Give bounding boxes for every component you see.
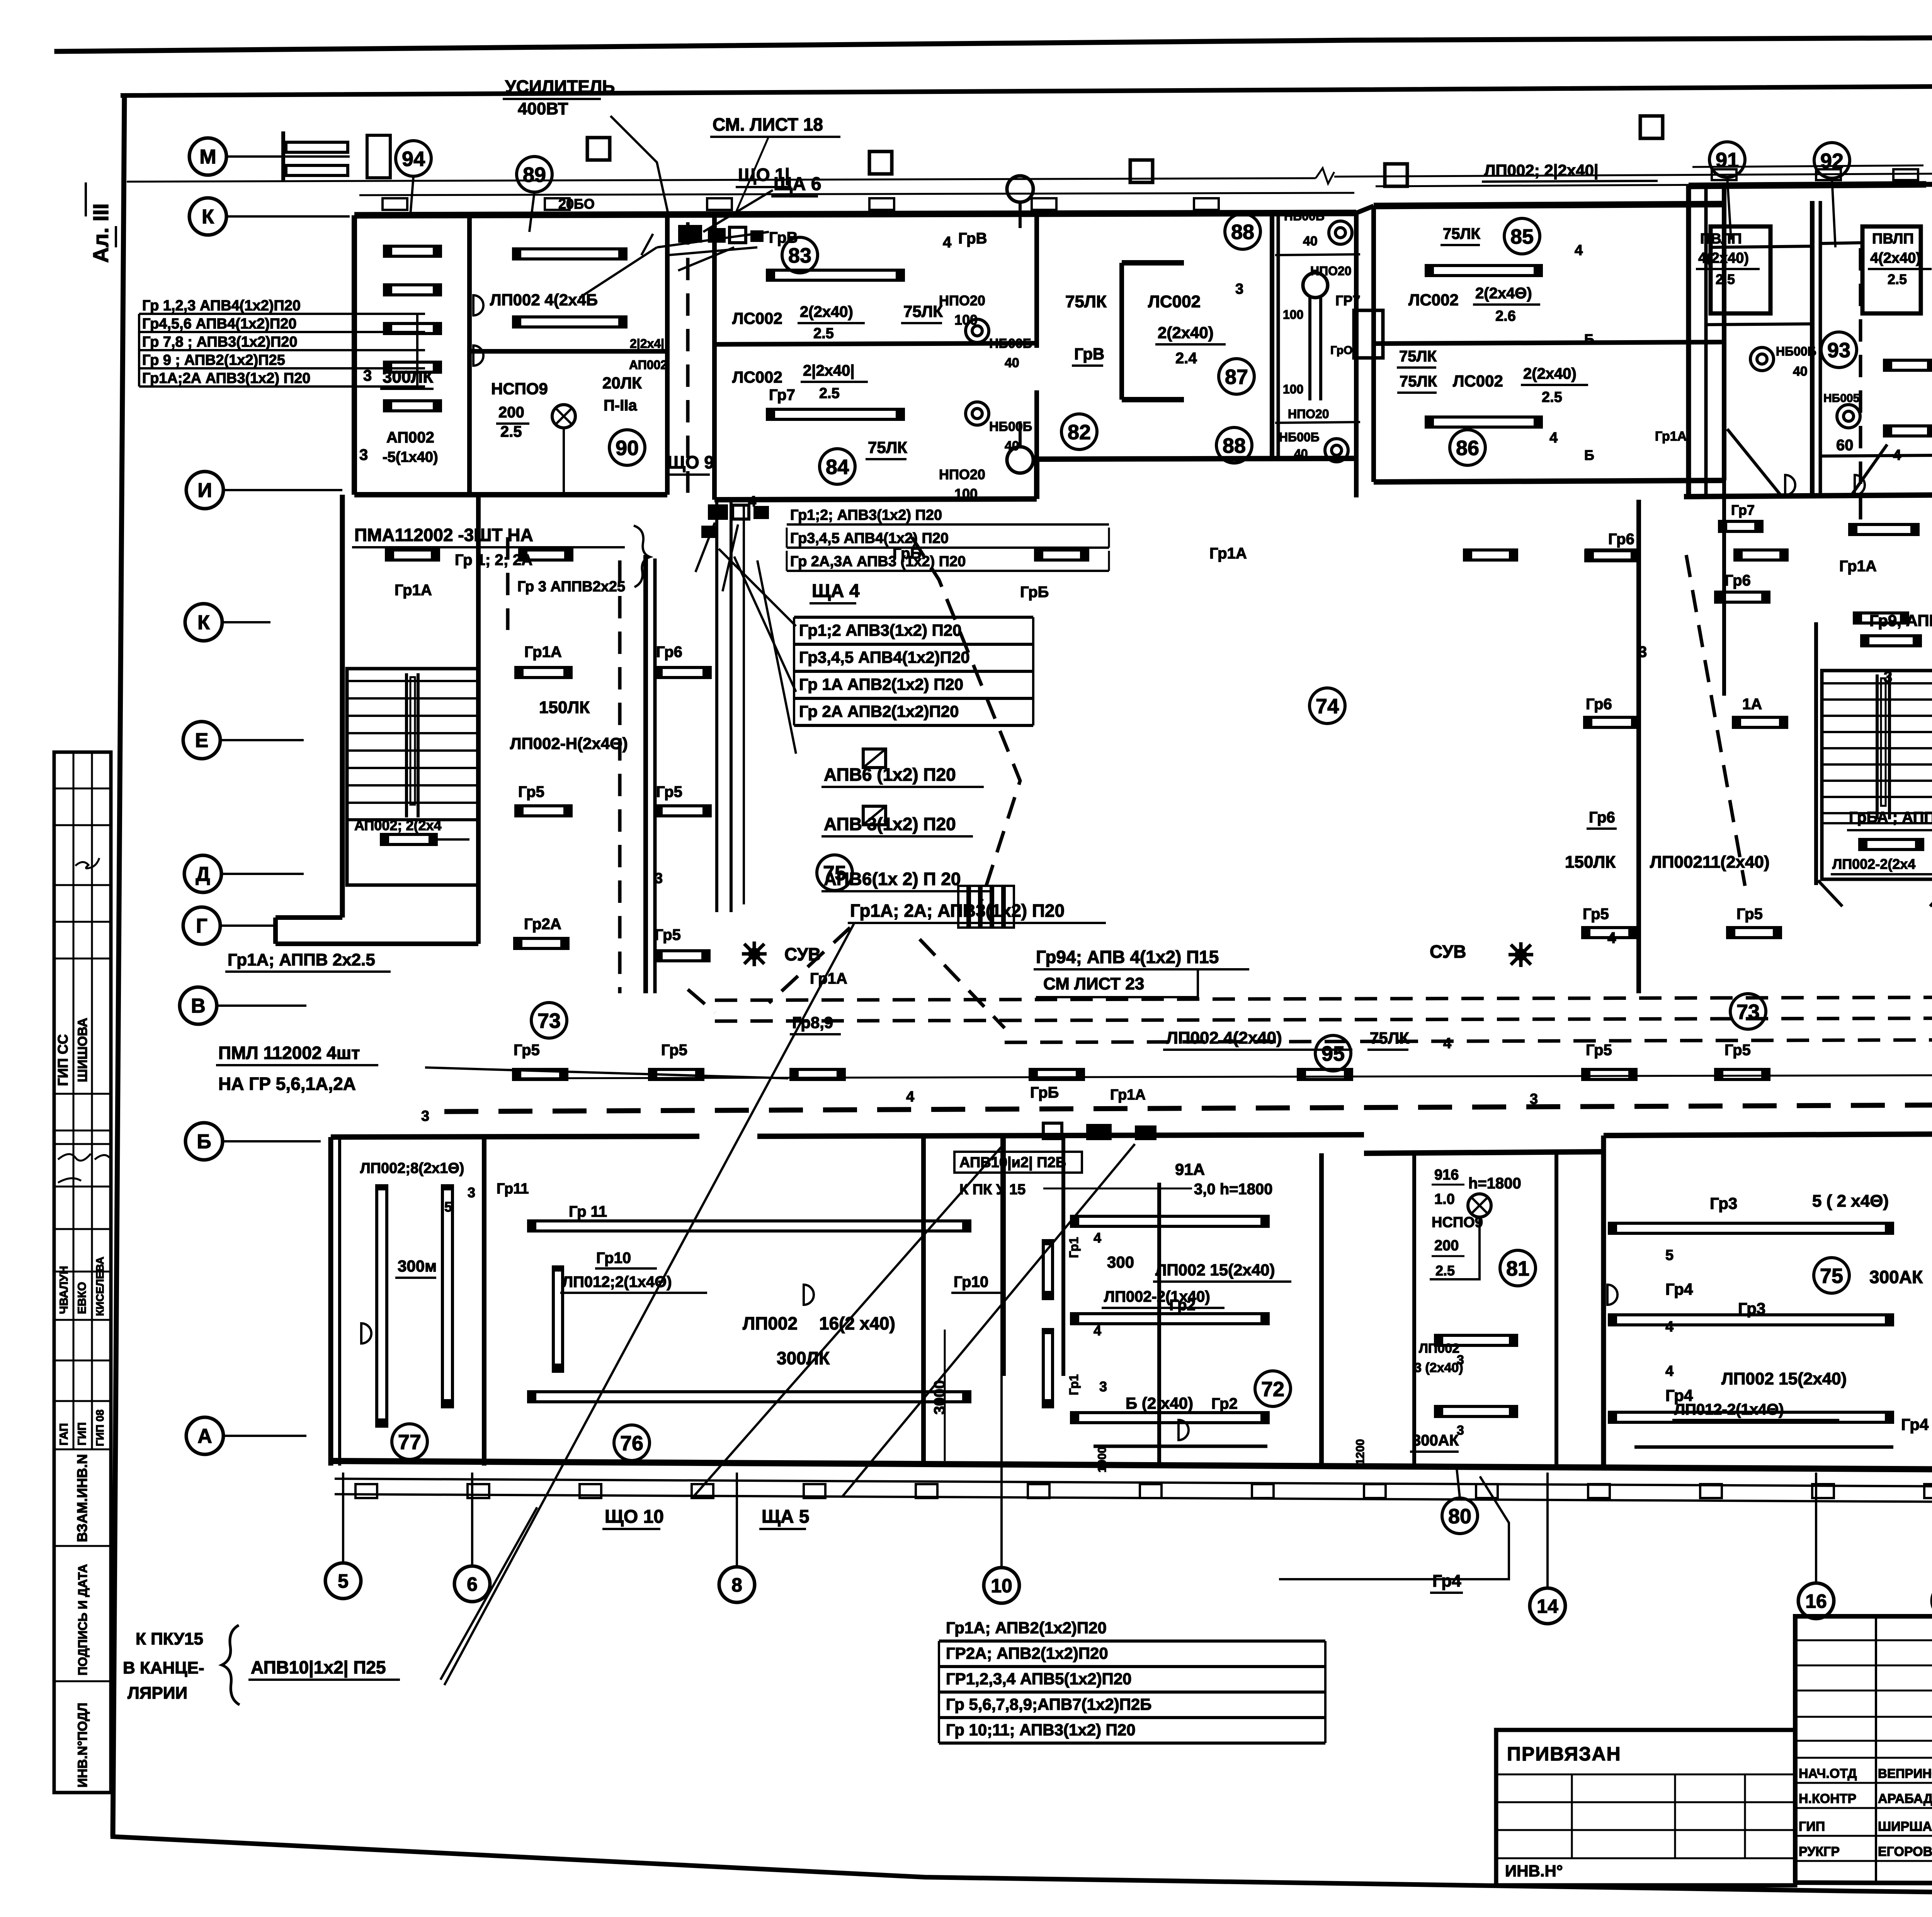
- svg-text:100: 100: [954, 486, 978, 502]
- svg-text:НАЧ.ОТД: НАЧ.ОТД: [1799, 1766, 1857, 1781]
- svg-text:СУВ: СУВ: [1430, 941, 1466, 962]
- svg-text:Гр 7,8 ; АПВ3(1х2)П20: Гр 7,8 ; АПВ3(1х2)П20: [142, 334, 298, 350]
- svg-text:ЕГОРОВА: ЕГОРОВА: [1878, 1844, 1932, 1859]
- svg-text:ЩО 1|: ЩО 1|: [738, 165, 790, 185]
- svg-text:Гр 2А АПВ2(1х2)П20: Гр 2А АПВ2(1х2)П20: [799, 702, 959, 720]
- corridor 95 fixtures: [514, 1069, 567, 1079]
- svg-text:300: 300: [1107, 1253, 1134, 1271]
- dashed vertical top-right: [1859, 248, 1862, 526]
- svg-text:ЛС002: ЛС002: [1408, 291, 1459, 309]
- svg-text:АП002: АП002: [629, 358, 667, 372]
- svg-text:2.4: 2.4: [1175, 350, 1197, 367]
- svg-text:75ЛК: 75ЛК: [1400, 373, 1437, 390]
- svg-text:ЛП002-Н(2х4Θ): ЛП002-Н(2х4Θ): [510, 734, 628, 752]
- svg-text:75ЛК: 75ЛК: [1065, 292, 1107, 311]
- svg-text:Гр5: Гр5: [1736, 906, 1763, 923]
- room 84 lamp bar: [767, 409, 903, 419]
- svg-text:Гр3: Гр3: [1738, 1299, 1765, 1318]
- svg-text:3: 3: [421, 1108, 429, 1124]
- svg-text:НБ00Б: НБ00Б: [1279, 430, 1320, 444]
- hatch squares: [863, 749, 886, 768]
- svg-text:Гр 1,2,3 АПВ4(1х2)П20: Гр 1,2,3 АПВ4(1х2)П20: [142, 298, 301, 314]
- svg-text:НПО20: НПО20: [939, 293, 985, 308]
- svg-text:АПВ6(1х 2) П 20: АПВ6(1х 2) П 20: [824, 869, 961, 889]
- room number 76: [614, 1425, 650, 1461]
- svg-text:5 ( 2 х4Θ): 5 ( 2 х4Θ): [1812, 1192, 1889, 1210]
- svg-text:88: 88: [1231, 220, 1254, 243]
- svg-text:8: 8: [731, 1574, 742, 1596]
- svg-text:2.5: 2.5: [813, 325, 834, 342]
- svg-text:Гр 5,6,7,8,9;АПВ7(1х2)П2Б: Гр 5,6,7,8,9;АПВ7(1х2)П2Б: [946, 1695, 1151, 1713]
- bottom wing window band: [335, 1479, 1932, 1486]
- svg-text:Гр6: Гр6: [1589, 809, 1615, 826]
- svg-text:НБ00Б: НБ00Б: [989, 419, 1032, 434]
- dashed diagonal right zone: [1686, 555, 1745, 886]
- svg-text:3: 3: [363, 367, 372, 384]
- room 85 lamp bar: [1426, 266, 1541, 276]
- svg-text:95: 95: [1321, 1042, 1345, 1065]
- svg-text:75ЛК: 75ЛК: [868, 438, 907, 456]
- svg-text:5: 5: [1665, 1247, 1673, 1263]
- svg-text:300ЛК: 300ЛК: [383, 368, 433, 386]
- svg-text:К: К: [197, 611, 210, 634]
- vertical risers room 72: [1043, 1241, 1053, 1299]
- svg-text:ЛЯРИИ: ЛЯРИИ: [128, 1684, 187, 1702]
- svg-text:ЛП00211(2х40): ЛП00211(2х40): [1650, 853, 1770, 872]
- hall 74 right wall: [1636, 500, 1641, 993]
- svg-text:82: 82: [1068, 421, 1091, 444]
- svg-text:Б (2 х40): Б (2 х40): [1126, 1394, 1193, 1412]
- dashed riser hall: [618, 560, 622, 993]
- room 77 vertical lamp bars: [377, 1186, 387, 1426]
- svg-text:300АК: 300АК: [1869, 1267, 1923, 1287]
- hall left wall fixtures: [516, 667, 571, 678]
- svg-text:16: 16: [1805, 1590, 1827, 1612]
- svg-text:300АК: 300АК: [1412, 1432, 1459, 1449]
- svg-text:150ЛК: 150ЛК: [1565, 853, 1616, 872]
- svg-text:4: 4: [1094, 1230, 1101, 1246]
- right stair lower room: [1814, 622, 1818, 885]
- svg-text:Гр2А: Гр2А: [524, 916, 561, 933]
- SUV star right: [1509, 942, 1533, 967]
- svg-text:h=1800: h=1800: [1468, 1175, 1521, 1192]
- cable trunk risers: [715, 502, 718, 912]
- bottom wing bottom wall: [329, 1461, 1932, 1469]
- svg-text:150ЛК: 150ЛК: [539, 698, 590, 717]
- svg-text:400ВТ: 400ВТ: [518, 99, 568, 118]
- svg-text:ШИРШАЦЕВ: ШИРШАЦЕВ: [1878, 1819, 1932, 1834]
- svg-text:Б: Б: [1584, 331, 1594, 347]
- svg-text:Гр6: Гр6: [1608, 531, 1634, 548]
- svg-text:АП002; 2(2х4: АП002; 2(2х4: [354, 817, 442, 833]
- svg-text:ЩА 5: ЩА 5: [762, 1507, 810, 1527]
- svg-text:94: 94: [402, 147, 425, 170]
- svg-text:КИСЕЛЕВА: КИСЕЛЕВА: [94, 1257, 106, 1316]
- upper-right small bars: [1884, 360, 1932, 370]
- svg-text:40: 40: [1005, 439, 1019, 453]
- svg-text:Гр4,5,6 АПВ4(1х2)П20: Гр4,5,6 АПВ4(1х2)П20: [142, 316, 297, 332]
- svg-text:4: 4: [748, 494, 756, 510]
- svg-text:2(2х4Θ): 2(2х4Θ): [1475, 285, 1532, 302]
- svg-text:88: 88: [1223, 434, 1246, 457]
- svg-text:ИНВ.N°ПОДЛ: ИНВ.N°ПОДЛ: [75, 1702, 90, 1788]
- svg-text:ГИП СС: ГИП СС: [55, 1034, 71, 1086]
- svg-text:СМ. ЛИСТ 18: СМ. ЛИСТ 18: [713, 114, 823, 134]
- svg-text:Гр1А; АПВ2(1х2)П20: Гр1А; АПВ2(1х2)П20: [946, 1619, 1107, 1637]
- svg-text:Гр1А: Гр1А: [524, 644, 562, 661]
- room number 95: [1315, 1035, 1351, 1071]
- room number 93: [1821, 332, 1857, 368]
- svg-text:4: 4: [1443, 1035, 1451, 1052]
- svg-text:Гр1А; 2А; АПВ3(1х2) П20: Гр1А; 2А; АПВ3(1х2) П20: [850, 901, 1065, 921]
- svg-text:Гр10: Гр10: [596, 1250, 631, 1267]
- top wing inner horizontal walls: [469, 349, 667, 354]
- bottom wing top wall: [331, 1136, 699, 1137]
- svg-text:-5(1х40): -5(1х40): [383, 449, 438, 465]
- svg-text:2(2х40): 2(2х40): [1158, 323, 1214, 342]
- room 82 alcove walls: [1122, 260, 1184, 266]
- svg-text:3: 3: [1638, 644, 1647, 661]
- svg-text:20ЛК: 20ЛК: [602, 374, 642, 392]
- svg-text:91: 91: [1716, 148, 1739, 172]
- room number 77: [392, 1424, 427, 1459]
- svg-text:АП002: АП002: [386, 429, 434, 446]
- svg-text:ЛП002: ЛП002: [743, 1313, 798, 1333]
- axis letter bubbles: [189, 138, 226, 175]
- svg-text:Гр94; АПВ 4(1х2) П15: Гр94; АПВ 4(1х2) П15: [1036, 947, 1219, 967]
- svg-text:К ПК У 15: К ПК У 15: [959, 1182, 1026, 1198]
- svg-text:А: А: [197, 1425, 212, 1447]
- room number 85: [1504, 218, 1540, 254]
- svg-text:Гр 1А АПВ2(1х2) П20: Гр 1А АПВ2(1х2) П20: [799, 675, 963, 693]
- svg-text:В КАНЦЕ-: В КАНЦЕ-: [123, 1658, 204, 1677]
- svg-text:300м: 300м: [398, 1257, 437, 1275]
- svg-text:ЛП002 4(2х4Б: ЛП002 4(2х4Б: [490, 291, 598, 309]
- svg-text:2(2х40): 2(2х40): [800, 303, 853, 320]
- drawing border left: [113, 95, 124, 1837]
- svg-text:3,0 h=1800: 3,0 h=1800: [1194, 1181, 1273, 1198]
- svg-text:4: 4: [1665, 1319, 1673, 1335]
- svg-text:Гр1А: Гр1А: [1839, 558, 1877, 575]
- svg-text:Гр9, АППВ: Гр9, АППВ: [1869, 611, 1932, 630]
- svg-text:ИНВ.Н°: ИНВ.Н°: [1505, 1862, 1563, 1880]
- svg-text:74: 74: [1316, 695, 1339, 718]
- room number 86: [1450, 430, 1485, 465]
- room 76 long lamp bars: [529, 1221, 970, 1231]
- room 88 right fixtures: [1303, 273, 1328, 298]
- svg-text:Г: Г: [196, 915, 207, 937]
- svg-text:2.5: 2.5: [1716, 271, 1735, 287]
- svg-text:72: 72: [1261, 1377, 1284, 1401]
- svg-text:Гр7: Гр7: [1731, 502, 1755, 518]
- svg-text:Гр1А: Гр1А: [1110, 1087, 1146, 1103]
- leader pma4sht: [425, 1067, 788, 1078]
- shaft dashed riser: [686, 222, 690, 493]
- SUV star left: [742, 941, 767, 966]
- svg-text:40: 40: [1005, 356, 1019, 370]
- svg-text:Гр6: Гр6: [1586, 696, 1612, 713]
- svg-text:2(2х40): 2(2х40): [1523, 365, 1577, 382]
- svg-text:75ЛК: 75ЛК: [1443, 225, 1481, 242]
- svg-text:100: 100: [1283, 308, 1303, 322]
- svg-text:20БО: 20БО: [558, 196, 595, 212]
- lamp room 90: [552, 405, 575, 428]
- svg-text:73: 73: [537, 1009, 561, 1032]
- panels cluster axis I (ShchA4): [708, 504, 728, 520]
- room number 80: [1442, 1498, 1478, 1534]
- svg-text:В: В: [191, 995, 206, 1017]
- svg-text:ЕВКО: ЕВКО: [76, 1282, 88, 1314]
- svg-text:ПОДПИСЬ И ДАТА: ПОДПИСЬ И ДАТА: [76, 1564, 90, 1675]
- svg-text:НБ00Б: НБ00Б: [1776, 344, 1816, 358]
- svg-text:Гр4: Гр4: [1665, 1280, 1693, 1298]
- svg-text:1А: 1А: [1742, 696, 1762, 713]
- svg-text:Гр7: Гр7: [769, 386, 795, 403]
- leader SchO10: [694, 1144, 1004, 1496]
- room number 90: [609, 430, 645, 465]
- svg-text:Гр3: Гр3: [1710, 1194, 1737, 1212]
- top wing partition walls: [352, 215, 357, 495]
- room number 82: [1061, 414, 1097, 449]
- svg-text:84: 84: [826, 455, 849, 478]
- top wing window band: [359, 193, 1354, 195]
- room 94 lamp bars: [384, 246, 440, 256]
- svg-text:Гр3,4,5 АПВ4(1х2)П20: Гр3,4,5 АПВ4(1х2)П20: [799, 648, 970, 666]
- svg-text:Гр 10;11; АПВ3(1х2) П20: Гр 10;11; АПВ3(1х2) П20: [946, 1721, 1136, 1739]
- svg-text:Б: Б: [197, 1130, 211, 1153]
- room number 88: [1216, 427, 1252, 463]
- svg-text:3: 3: [1884, 669, 1892, 686]
- svg-text:4(2х40): 4(2х40): [1870, 250, 1921, 266]
- svg-text:92: 92: [1820, 149, 1844, 172]
- svg-text:ГР2А; АПВ2(1х2)П20: ГР2А; АПВ2(1х2)П20: [946, 1644, 1108, 1662]
- bottom grid bubbles: [325, 1563, 361, 1599]
- svg-text:ГрВ: ГрВ: [1074, 345, 1104, 363]
- svg-text:5: 5: [444, 1199, 452, 1215]
- leader SchA5: [842, 1144, 1135, 1496]
- svg-text:6: 6: [467, 1573, 478, 1595]
- svg-text:НСПО9: НСПО9: [1432, 1214, 1483, 1231]
- svg-text:Б: Б: [1584, 447, 1594, 463]
- svg-text:АПВ 3(1х2) П20: АПВ 3(1х2) П20: [824, 814, 956, 834]
- left stair: [347, 669, 478, 885]
- dashed diagonal hall: [912, 537, 1020, 901]
- svg-text:1200: 1200: [1354, 1439, 1367, 1465]
- leaders for room circles 94/89/91/92: [410, 176, 413, 215]
- svg-text:91А: 91А: [1175, 1160, 1205, 1178]
- svg-text:АРАБАДЖИ: АРАБАДЖИ: [1878, 1791, 1932, 1806]
- svg-text:2.6: 2.6: [1495, 308, 1516, 324]
- top-left window marks: [286, 142, 348, 152]
- svg-text:76: 76: [620, 1432, 643, 1455]
- svg-text:16(2 х40): 16(2 х40): [819, 1313, 895, 1333]
- svg-text:89: 89: [523, 163, 546, 186]
- svg-text:ПВЛП: ПВЛП: [1872, 231, 1914, 247]
- svg-text:4: 4: [1549, 430, 1558, 446]
- sheet outer top line: [57, 35, 1932, 51]
- svg-text:73: 73: [1736, 1000, 1760, 1023]
- room number 83: [782, 237, 818, 273]
- svg-text:4: 4: [906, 1089, 914, 1105]
- drawing border top: [123, 83, 1932, 95]
- svg-text:АПВ10|и2| П2Б: АПВ10|и2| П2Б: [959, 1154, 1066, 1171]
- svg-text:4: 4: [1575, 242, 1583, 259]
- svg-text:НПО20: НПО20: [1288, 407, 1329, 421]
- bottom wing partitions: [328, 1137, 333, 1466]
- svg-text:НБ00Б: НБ00Б: [989, 336, 1032, 351]
- svg-text:ЛС002: ЛС002: [1148, 292, 1201, 311]
- room number 91: [1709, 142, 1745, 177]
- svg-text:4(2х40): 4(2х40): [1698, 250, 1749, 266]
- room 75 lamp bars: [1609, 1223, 1893, 1233]
- svg-text:ЛС002: ЛС002: [732, 309, 782, 327]
- svg-text:40: 40: [1294, 447, 1308, 461]
- title block annex (privyazan): [1496, 1730, 1795, 1885]
- svg-text:ВЕПРИНСКИЙ: ВЕПРИНСКИЙ: [1878, 1766, 1932, 1781]
- long leader to APV10 text: [444, 924, 854, 1685]
- svg-text:3: 3: [1099, 1379, 1107, 1394]
- svg-text:3 (2х40): 3 (2х40): [1414, 1360, 1463, 1375]
- corridor trunk bold dashed: [444, 1105, 1932, 1112]
- svg-text:ЛП002 4(2х40): ЛП002 4(2х40): [1166, 1028, 1282, 1047]
- svg-text:ЩА 4: ЩА 4: [812, 581, 860, 601]
- stamp signature scribble: [75, 858, 99, 868]
- svg-text:40: 40: [1793, 364, 1808, 379]
- svg-text:НБ00Б: НБ00Б: [1284, 209, 1325, 223]
- svg-text:Гр11: Гр11: [497, 1181, 529, 1197]
- svg-text:100: 100: [1283, 382, 1303, 396]
- svg-text:ПРИВЯЗАН: ПРИВЯЗАН: [1507, 1743, 1621, 1765]
- svg-text:81: 81: [1506, 1257, 1529, 1280]
- svg-text:К: К: [202, 206, 214, 228]
- room number 75: [817, 855, 852, 890]
- svg-text:ГрБ: ГрБ: [1020, 584, 1049, 601]
- svg-text:14: 14: [1537, 1595, 1558, 1617]
- svg-text:ЛС002: ЛС002: [732, 368, 782, 386]
- svg-text:М: М: [199, 146, 216, 168]
- room number 89: [517, 157, 552, 192]
- svg-text:ГрВ: ГрВ: [769, 229, 798, 246]
- leaders from top panels: [703, 190, 773, 232]
- svg-text:40: 40: [1303, 234, 1318, 249]
- panels cluster top (ShchO1/ShchA6): [678, 225, 702, 243]
- svg-text:ЧВАЛУН: ЧВАЛУН: [58, 1266, 70, 1314]
- room number 88: [1225, 214, 1260, 249]
- svg-text:ЩО 9: ЩО 9: [667, 452, 714, 472]
- svg-text:Гр 1; 2; 2А: Гр 1; 2; 2А: [455, 552, 532, 569]
- svg-text:3: 3: [1457, 1423, 1464, 1438]
- svg-text:П-IIа: П-IIа: [604, 397, 637, 414]
- svg-text:Гр8,9: Гр8,9: [792, 1013, 833, 1032]
- room number 73: [1730, 994, 1766, 1029]
- svg-text:90: 90: [616, 436, 639, 460]
- svg-text:Гр1: Гр1: [1067, 1237, 1081, 1258]
- svg-text:200: 200: [1434, 1238, 1459, 1254]
- svg-text:Гр1А: Гр1А: [1655, 429, 1687, 444]
- svg-text:75: 75: [1820, 1264, 1843, 1287]
- svg-text:ГрВ: ГрВ: [958, 230, 987, 247]
- svg-text:ЛП002;8(2х1Θ): ЛП002;8(2х1Θ): [360, 1160, 464, 1176]
- svg-text:Н.КОНТР: Н.КОНТР: [1799, 1791, 1856, 1806]
- leader gr4: [1279, 1476, 1509, 1579]
- svg-text:ВЗАМ.ИНВ.N: ВЗАМ.ИНВ.N: [74, 1454, 90, 1542]
- svg-text:Е: Е: [195, 729, 209, 752]
- WC stall boxes: [1711, 226, 1770, 313]
- svg-text:300ЛК: 300ЛК: [777, 1348, 830, 1368]
- svg-text:Гр4: Гр4: [1432, 1571, 1461, 1590]
- svg-text:Гр 3 АППВ2х25: Гр 3 АППВ2х25: [517, 579, 625, 595]
- panels cluster corridor (ShchO10/ShchA5): [1086, 1124, 1112, 1140]
- room number 87: [1219, 359, 1254, 394]
- svg-text:ПМЛ 112002 4шт: ПМЛ 112002 4шт: [218, 1043, 360, 1063]
- grille symbol: [958, 886, 968, 928]
- svg-text:4: 4: [1893, 447, 1901, 463]
- svg-text:916: 916: [1434, 1167, 1459, 1183]
- svg-text:НБ005: НБ005: [1823, 392, 1859, 405]
- svg-text:75ЛК: 75ЛК: [1399, 348, 1437, 365]
- room 83 lamp bar: [767, 270, 903, 280]
- svg-text:Гр1;2 АПВ3(1х2) П20: Гр1;2 АПВ3(1х2) П20: [799, 621, 962, 639]
- svg-text:2|2х4|: 2|2х4|: [630, 337, 664, 351]
- svg-text:2|2х40|: 2|2х40|: [803, 362, 855, 379]
- dashed segment room 73 left: [688, 989, 715, 1013]
- svg-text:ГрБА ; АПП: ГрБА ; АПП: [1849, 809, 1932, 826]
- svg-text:2.5: 2.5: [819, 385, 840, 402]
- svg-text:4: 4: [1665, 1363, 1673, 1379]
- svg-text:ЛП002-2(2х4: ЛП002-2(2х4: [1832, 856, 1915, 872]
- room number 84: [820, 449, 855, 484]
- room number 81: [1500, 1250, 1536, 1286]
- svg-text:СМ ЛИСТ 23: СМ ЛИСТ 23: [1043, 974, 1144, 993]
- svg-text:И: И: [197, 479, 212, 502]
- rooms 83/84 pendant lamps: [1007, 176, 1033, 202]
- svg-text:85: 85: [1510, 225, 1534, 248]
- tambour funnel: [1727, 429, 1781, 496]
- reference line with break symbol: [127, 178, 1316, 182]
- svg-text:Гр5: Гр5: [518, 783, 544, 800]
- svg-text:75ЛК: 75ЛК: [1370, 1029, 1409, 1047]
- svg-text:Гр2: Гр2: [1211, 1395, 1238, 1412]
- svg-text:Гр10: Гр10: [954, 1273, 988, 1290]
- svg-text:200: 200: [498, 404, 524, 421]
- title block outer: [1795, 1614, 1932, 1619]
- title block central column grid: [1875, 1616, 1877, 1883]
- room 81 bars and lamp: [1435, 1335, 1517, 1345]
- svg-text:87: 87: [1225, 365, 1248, 388]
- svg-text:ГрБ: ГрБ: [1030, 1084, 1059, 1101]
- svg-text:3: 3: [655, 870, 663, 887]
- svg-text:НСПО9: НСПО9: [491, 380, 548, 398]
- svg-text:2.5: 2.5: [1888, 271, 1907, 287]
- svg-text:ЛП012-2(1х4Θ): ЛП012-2(1х4Θ): [1674, 1401, 1784, 1418]
- svg-text:ШИШОВА: ШИШОВА: [75, 1018, 90, 1082]
- svg-text:3: 3: [359, 446, 368, 463]
- left margin stamp column: [54, 752, 111, 1793]
- top wing bottom wall (axis I): [354, 492, 667, 497]
- room number 92: [1814, 143, 1850, 178]
- svg-text:ГИП: ГИП: [76, 1422, 88, 1445]
- svg-text:3: 3: [1457, 1353, 1464, 1367]
- svg-text:К ПКУ15: К ПКУ15: [136, 1629, 203, 1648]
- svg-text:10: 10: [991, 1575, 1012, 1597]
- svg-text:Гр5: Гр5: [1725, 1042, 1751, 1059]
- svg-text:Гр5: Гр5: [514, 1042, 540, 1059]
- corridor fixtures line: [514, 1075, 1932, 1078]
- svg-text:ГрБ: ГрБ: [893, 545, 921, 562]
- svg-text:1.0: 1.0: [1434, 1191, 1455, 1207]
- svg-text:ГАП: ГАП: [58, 1423, 70, 1445]
- room 86 lamp bar: [1426, 417, 1541, 427]
